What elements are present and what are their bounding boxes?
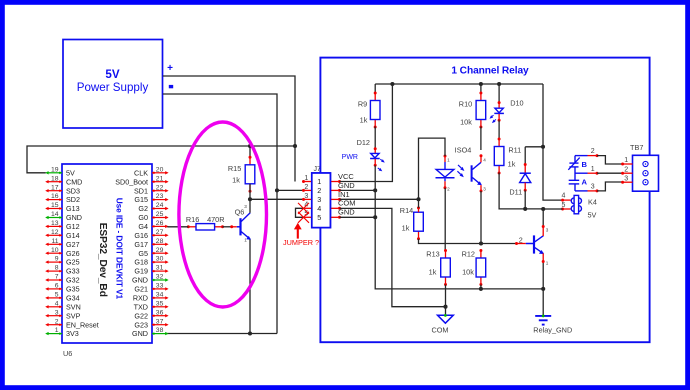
svg-text:31: 31: [156, 265, 164, 272]
junction node GND pin5 join: [373, 215, 377, 219]
J7 pin 5 right lead: [330, 216, 339, 218]
svg-text:27: 27: [156, 229, 164, 236]
ESP32 pin 19 (5V) left lead: [45, 166, 75, 177]
svg-text:2: 2: [624, 166, 628, 173]
junction node 5V rail / +5V riser: [293, 144, 297, 148]
svg-text:G13: G13: [66, 204, 80, 213]
svg-text:TXD: TXD: [134, 302, 148, 311]
svg-text:G23: G23: [134, 320, 148, 329]
ESP32 pin 28 (G17) right lead: [134, 238, 168, 249]
svg-text:18: 18: [51, 175, 59, 182]
ESP32 pin 34 (RXD) right lead: [133, 292, 169, 303]
ESP32 pin 2 (EN_Reset) left lead: [45, 318, 99, 329]
svg-text:3: 3: [244, 204, 247, 209]
svg-text:22: 22: [156, 184, 164, 191]
terminal block TB7: [630, 143, 659, 191]
svg-text:26: 26: [156, 220, 164, 227]
svg-text:29: 29: [156, 247, 164, 254]
svg-text:11: 11: [51, 238, 58, 245]
svg-text:2: 2: [591, 148, 595, 155]
ESP32 pin 36 (G22) right lead: [134, 309, 168, 320]
svg-text:G27: G27: [66, 240, 80, 249]
svg-text:17: 17: [51, 184, 59, 191]
svg-text:10k: 10k: [460, 118, 472, 127]
ESP32 dev board U6 body: [62, 164, 152, 343]
wire Q6 collector up: [249, 199, 251, 213]
relay contact pin1 lead: [575, 166, 599, 175]
svg-text:GND: GND: [132, 276, 148, 285]
LED D10 relay status: [490, 84, 524, 123]
svg-text:1: 1: [304, 175, 308, 182]
diode D11 (flyback): [509, 147, 530, 209]
svg-text:23: 23: [156, 193, 164, 200]
J7 pin 4 right lead: [330, 207, 339, 209]
svg-text:D11: D11: [509, 187, 522, 196]
junction node Q6 collector/IN1: [248, 197, 252, 201]
junction node D11 anode: [523, 207, 527, 211]
svg-text:36: 36: [156, 309, 164, 316]
svg-text:K4: K4: [588, 197, 597, 206]
ESP32 pin 3 (SVP) left lead: [45, 309, 80, 320]
svg-text:JUMPER ?: JUMPER ?: [283, 238, 319, 247]
wire R15 top to 5V rail: [249, 146, 251, 157]
svg-text:6: 6: [55, 283, 59, 290]
svg-text:2: 2: [519, 235, 523, 244]
wire R13 bottom to COM node: [445, 285, 447, 307]
svg-text:19: 19: [51, 166, 59, 173]
svg-text:1: 1: [55, 327, 59, 334]
svg-text:G26: G26: [66, 249, 80, 258]
svg-text:25: 25: [156, 211, 164, 218]
svg-text:1: 1: [591, 166, 595, 173]
svg-text:TB7: TB7: [630, 143, 643, 152]
wire GND from supply (minus) down left of J7: [163, 94, 277, 334]
wire contact pin2 to TB7 pin1: [597, 156, 623, 164]
svg-text:1k: 1k: [429, 268, 437, 277]
svg-text:9: 9: [55, 256, 59, 263]
junction node rail/D10: [497, 82, 501, 86]
J7 pin 2 right lead: [330, 189, 339, 191]
ESP32 pin 13 (G12) left lead: [45, 220, 79, 231]
svg-text:+: +: [167, 63, 173, 74]
wire GND riser down to ground run: [375, 190, 543, 289]
ground symbol COM: [431, 307, 453, 335]
wire R9 to D12: [374, 127, 376, 149]
wire ESP32 G4 pin26 to R16: [167, 226, 188, 228]
label - (negative terminal): [169, 85, 173, 88]
J7 pin 4 left lead (jumpered): [304, 202, 312, 209]
TB7 pin 1 lead: [621, 157, 632, 165]
svg-text:R13: R13: [426, 249, 439, 258]
junction node ground run/Q7 emitter: [541, 287, 545, 291]
svg-text:4: 4: [483, 157, 486, 162]
svg-text:38: 38: [156, 327, 164, 334]
svg-text:Power Supply: Power Supply: [77, 81, 149, 94]
svg-text:CMD: CMD: [66, 177, 82, 186]
transistor Q6 (NPN): [230, 204, 251, 242]
ESP32 pin 8 (G33) left lead: [45, 265, 79, 276]
ESP32 pin 35 (TXD) right lead: [134, 300, 169, 311]
svg-text:1k: 1k: [402, 223, 410, 232]
wire R10 to ISO4 collector: [480, 127, 482, 151]
svg-text:33: 33: [156, 283, 164, 290]
wire J7 GND pin5 to GND riser: [340, 216, 376, 218]
svg-text:Relay_GND: Relay_GND: [533, 326, 572, 335]
svg-text:G25: G25: [66, 258, 80, 267]
wire R12 bottom to ground run: [480, 285, 482, 289]
svg-text:EN_Reset: EN_Reset: [66, 320, 99, 329]
wire rail to R10: [480, 84, 482, 93]
wire Q6 emitter to GND line: [249, 240, 251, 334]
svg-text:R10: R10: [459, 100, 472, 109]
svg-text:RXD: RXD: [133, 294, 148, 303]
svg-text:GND: GND: [132, 329, 148, 338]
svg-text:G12: G12: [66, 222, 80, 231]
ESP32 pin 1 (3V3) left lead: [45, 327, 79, 338]
resistor R12 (10k): [462, 249, 486, 286]
ESP32 pin 14 (GND) left lead: [45, 211, 82, 222]
svg-text:20: 20: [156, 166, 164, 173]
relay K4 contact B (NC): [568, 156, 587, 170]
svg-text:1k: 1k: [360, 116, 368, 125]
svg-text:D12: D12: [357, 138, 370, 147]
svg-text:1 Channel Relay: 1 Channel Relay: [451, 65, 529, 76]
optocoupler ISO4: [436, 145, 487, 192]
svg-text:5: 5: [562, 202, 566, 209]
svg-text:VCC: VCC: [338, 172, 354, 181]
svg-text:3: 3: [55, 309, 59, 316]
ESP32 pin 25 (G0) right lead: [138, 211, 168, 222]
svg-text:G34: G34: [66, 294, 80, 303]
ESP32 pin 17 (SD3) left lead: [45, 184, 80, 195]
svg-text:G16: G16: [134, 231, 148, 240]
svg-text:37: 37: [156, 318, 164, 325]
wire D11 top to VCC riser: [525, 146, 543, 148]
ESP32 pin 33 (G21) right lead: [134, 283, 168, 294]
svg-text:2: 2: [317, 186, 321, 195]
svg-text:G33: G33: [66, 267, 80, 276]
wire Q7 collector up to coil node: [542, 209, 544, 227]
junction node rail/R10: [479, 82, 483, 86]
wire J7 IN1 to R14/opto node: [340, 198, 419, 200]
ESP32 pin 21 (SD0_Boot) right lead: [115, 175, 168, 186]
1 Channel Relay module box: [320, 58, 649, 343]
no-connect X mark on J7 pin4: [298, 203, 309, 214]
J7 pin 3 left lead: [302, 193, 312, 201]
wire contact pin1 to TB7 pin2: [597, 172, 623, 174]
wire GND to J7 pin2: [277, 189, 304, 191]
wire J7 COM down to COM ground node: [340, 208, 446, 306]
svg-text:4: 4: [317, 204, 321, 213]
wire contact pin3 to TB7 pin3: [597, 182, 623, 191]
svg-text:5: 5: [317, 213, 321, 222]
svg-text:SVN: SVN: [66, 302, 81, 311]
ESP32 pin 20 (CLK) right lead: [134, 166, 169, 177]
relay K4 contact A (NO): [569, 167, 588, 191]
svg-text:R16: R16: [186, 215, 199, 224]
resistor R11 (1k): [494, 138, 521, 175]
junction node D12-GND: [373, 188, 377, 192]
wire ESP32 GND pin38 to GND riser: [167, 333, 277, 335]
power supply box PS1 (5V Power Supply): [63, 40, 163, 129]
svg-text:PWR: PWR: [342, 154, 358, 161]
svg-text:10k: 10k: [462, 268, 474, 277]
svg-text:SD2: SD2: [66, 195, 80, 204]
svg-text:14: 14: [51, 211, 59, 218]
ESP32 pin 24 (G2) right lead: [138, 202, 168, 213]
svg-text:GND: GND: [338, 208, 355, 217]
svg-text:G18: G18: [134, 258, 148, 267]
svg-text:8: 8: [55, 265, 59, 272]
junction node COM/R13: [443, 305, 447, 309]
relay contact pin3 lead: [575, 183, 599, 192]
TB7 pin 2 lead: [621, 166, 632, 174]
wire 5V rail from ESP32 pin19 to +5V riser: [27, 146, 295, 173]
wire R14 top to IN1 node: [418, 199, 420, 208]
svg-text:28: 28: [156, 238, 164, 245]
svg-text:3V3: 3V3: [66, 329, 79, 338]
svg-text:3: 3: [304, 193, 308, 200]
J7 pin 1 left lead: [302, 175, 312, 183]
junction node IN1/R14/opto: [416, 197, 420, 201]
svg-text:3: 3: [591, 183, 595, 190]
svg-text:5V: 5V: [66, 168, 75, 177]
wire ISO4 emitter down to Q7 base line: [480, 191, 482, 244]
svg-text:2: 2: [447, 187, 450, 192]
wire R16 to Q6 base: [223, 226, 232, 228]
ESP32 pin 26 (G4) right lead: [138, 220, 168, 231]
svg-text:3: 3: [546, 228, 549, 233]
ESP32 pin 30 (G18) right lead: [134, 256, 168, 267]
svg-text:G4: G4: [138, 222, 148, 231]
junction node coil-/collector: [541, 207, 545, 211]
wire R11 bottom to coil line: [499, 173, 543, 209]
LED D12 power indicator: [342, 138, 385, 171]
resistor R14 top lead: [418, 208, 420, 212]
svg-text:7: 7: [55, 274, 59, 281]
ESP32 pin 12 (G14) left lead: [45, 229, 79, 240]
svg-text:GND: GND: [66, 213, 82, 222]
wire D12 to GND riser/junction: [374, 165, 376, 190]
svg-text:R15: R15: [228, 164, 241, 173]
resistor R16 470R (horizontal): [186, 215, 225, 230]
svg-text:SD1: SD1: [134, 186, 148, 195]
wire J7 VCC to top rail riser: [340, 84, 393, 182]
J7 pin 3 right lead: [330, 198, 339, 200]
svg-text:1k: 1k: [508, 159, 516, 168]
ESP32 pin 37 (G23) right lead: [134, 318, 168, 329]
ESP32 pin 22 (SD1) right lead: [134, 184, 169, 195]
svg-text:G22: G22: [134, 311, 148, 320]
svg-text:30: 30: [156, 256, 164, 263]
ESP32 pin 6 (G35) left lead: [45, 283, 79, 294]
svg-text:32: 32: [156, 274, 164, 281]
svg-text:G19: G19: [134, 267, 148, 276]
ESP32 pin 18 (CMD) left lead: [45, 175, 82, 186]
svg-text:1: 1: [624, 157, 628, 164]
svg-text:B: B: [582, 160, 588, 169]
svg-text:CLK: CLK: [134, 168, 148, 177]
ESP32 pin 11 (G27) left lead: [45, 238, 79, 249]
svg-text:3: 3: [624, 175, 628, 182]
wire rail to R9: [374, 84, 376, 93]
connector J7 body: [312, 166, 331, 227]
wire R14 bottom to Q7 base line: [419, 239, 517, 244]
J7 pin 2 left lead: [302, 184, 312, 192]
svg-text:ISO4: ISO4: [455, 145, 472, 154]
svg-text:3: 3: [483, 187, 486, 192]
ESP32 pin 32 (GND) right lead: [132, 274, 169, 285]
svg-text:G14: G14: [66, 231, 80, 240]
svg-text:SD0_Boot: SD0_Boot: [115, 177, 148, 186]
svg-text:Q6: Q6: [235, 207, 245, 216]
svg-text:Use IDE - DOIT DEVKIT V1: Use IDE - DOIT DEVKIT V1: [115, 198, 125, 300]
svg-text:13: 13: [51, 220, 59, 227]
junction node D11 cathode/VCC riser: [541, 145, 545, 149]
svg-text:470R: 470R: [207, 215, 224, 224]
svg-text:1: 1: [317, 177, 321, 186]
resistor R9 (1k): [358, 92, 380, 129]
svg-text:U6: U6: [63, 349, 72, 358]
resistor R15 (1k): [228, 156, 255, 193]
svg-text:34: 34: [156, 292, 164, 299]
svg-text:G32: G32: [66, 276, 80, 285]
jumper wire J7 pin4-pin5: [296, 208, 304, 217]
wire D10 to R11: [498, 120, 500, 139]
wire J7 GND pin2 to GND riser: [340, 189, 376, 191]
ESP32 pin 9 (G25) left lead: [45, 256, 79, 267]
resistor R13 (1k): [426, 249, 450, 286]
ESP32 pin 5 (G34) left lead: [45, 292, 79, 303]
relay contact pin2 lead: [575, 148, 599, 157]
svg-text:5V: 5V: [105, 68, 119, 81]
ESP32 pin 4 (SVN) left lead: [45, 300, 81, 311]
svg-text:21: 21: [156, 175, 164, 182]
svg-text:COM: COM: [431, 326, 448, 335]
transistor Q7 (NPN): [515, 228, 549, 266]
svg-text:4: 4: [55, 300, 59, 307]
svg-text:G0: G0: [138, 213, 148, 222]
svg-text:1: 1: [244, 238, 247, 243]
svg-text:3: 3: [317, 195, 321, 204]
wire ISO4 LED anode loop to IN1 node: [419, 138, 446, 199]
svg-text:SVP: SVP: [66, 311, 81, 320]
connector J7 body overlay: [312, 173, 331, 228]
ESP32 pin 31 (G19) right lead: [134, 265, 168, 276]
ESP32 pin 10 (G26) left lead: [45, 247, 79, 258]
wire VCC rail right riser to relay coil pin4: [543, 84, 563, 200]
J7 pin 5 left lead (jumpered): [304, 211, 312, 218]
wire R15 bottom to Q6 collector node / J7 IN1: [250, 184, 304, 200]
svg-text:R11: R11: [508, 145, 521, 154]
svg-text:35: 35: [156, 300, 164, 307]
svg-text:GND: GND: [338, 181, 355, 190]
svg-text:G5: G5: [138, 249, 148, 258]
svg-text:5V: 5V: [588, 211, 597, 220]
relay K4 coil: [561, 193, 597, 220]
svg-text:4: 4: [562, 193, 566, 200]
svg-text:D10: D10: [510, 98, 523, 107]
junction node rail/VCC riser: [390, 82, 394, 86]
ESP32 pin 29 (G5) right lead: [138, 247, 168, 258]
svg-text:5: 5: [55, 292, 59, 299]
svg-text:G35: G35: [66, 285, 80, 294]
svg-text:G15: G15: [134, 195, 148, 204]
resistor R10 (10k): [459, 92, 486, 129]
resistor R14 (1k): [400, 206, 423, 240]
svg-text:1k: 1k: [232, 176, 240, 185]
svg-text:R12: R12: [462, 249, 475, 258]
svg-text:ESP32_Dev_Bd: ESP32_Dev_Bd: [97, 223, 108, 297]
no-connect X mark on J7 pin5: [298, 212, 309, 223]
wire VCC top rail: [375, 83, 543, 85]
wire +5V from supply to J7 VCC: [163, 76, 295, 182]
JUMPER annotation arrow: [294, 223, 302, 239]
svg-text:10: 10: [51, 247, 59, 254]
junction node ground run/R12: [479, 287, 483, 291]
svg-text:1: 1: [447, 157, 450, 162]
junction node GND riser / J7 pin2 line: [275, 188, 279, 192]
ESP32 pin 27 (G16) right lead: [134, 229, 168, 240]
ESP32 pin 15 (G13) left lead: [45, 202, 79, 213]
svg-text:SD3: SD3: [66, 186, 80, 195]
wire coil pin5 to Q7 collector node: [555, 208, 563, 210]
svg-text:1: 1: [546, 261, 549, 266]
svg-text:IN1: IN1: [338, 190, 350, 199]
svg-text:A: A: [582, 177, 588, 186]
ESP32 pin 38 (GND) right lead: [132, 327, 169, 338]
svg-text:R9: R9: [358, 100, 367, 109]
svg-text:2: 2: [55, 318, 59, 325]
ESP32 pin 23 (G15) right lead: [134, 193, 168, 204]
svg-text:G17: G17: [134, 240, 148, 249]
svg-text:COM: COM: [338, 199, 356, 208]
highlight ellipse (driver circuit): [179, 122, 267, 307]
J7 pin 1 right lead: [330, 181, 339, 183]
svg-text:24: 24: [156, 202, 164, 209]
junction node Q6 emitter/GND line: [248, 331, 252, 335]
svg-text:16: 16: [51, 193, 59, 200]
junction node base line/R12/opto emitter: [479, 241, 483, 245]
ground symbol Relay_GND: [533, 289, 572, 335]
svg-text:15: 15: [51, 202, 59, 209]
svg-text:G21: G21: [134, 285, 148, 294]
junction node 5V rail / R15: [248, 144, 252, 148]
svg-text:2: 2: [304, 184, 308, 191]
TB7 pin 3 lead: [621, 175, 632, 183]
svg-text:R14: R14: [400, 206, 413, 215]
svg-text:G2: G2: [138, 204, 148, 213]
ESP32 pin 7 (G32) left lead: [45, 274, 79, 285]
ESP32 pin 16 (SD2) left lead: [45, 193, 80, 204]
wire ISO4 LED cathode down to R13: [444, 188, 446, 251]
svg-text:12: 12: [51, 229, 59, 236]
wire Q7 emitter down to ground run: [542, 262, 544, 289]
